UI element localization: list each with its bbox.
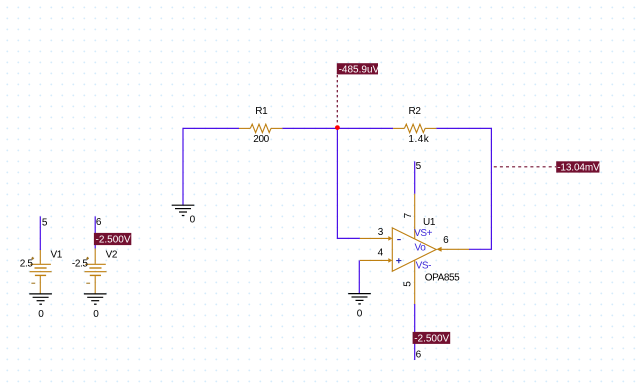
svg-text:3: 3 [378, 227, 384, 238]
svg-text:V1: V1 [51, 250, 63, 261]
svg-text:-485.9uV: -485.9uV [339, 64, 380, 75]
svg-text:VS-: VS- [416, 260, 432, 271]
svg-text:-13.04mV: -13.04mV [557, 163, 600, 174]
svg-text:5: 5 [416, 161, 422, 172]
svg-text:0: 0 [38, 309, 44, 320]
svg-text:Vo: Vo [415, 242, 427, 253]
svg-text:U1: U1 [423, 217, 436, 228]
svg-text:OPA855: OPA855 [425, 272, 460, 283]
svg-text:0: 0 [357, 309, 363, 320]
svg-text:5: 5 [42, 218, 48, 229]
svg-text:6: 6 [96, 217, 102, 228]
svg-text:VS+: VS+ [414, 228, 433, 239]
svg-text:5: 5 [402, 281, 413, 287]
svg-text:6: 6 [443, 235, 449, 246]
svg-text:R2: R2 [409, 106, 422, 117]
svg-text:R1: R1 [255, 106, 268, 117]
svg-text:200: 200 [253, 134, 269, 145]
svg-text:2.5: 2.5 [20, 258, 34, 269]
svg-text:6: 6 [416, 349, 422, 360]
svg-text:-2.5: -2.5 [72, 258, 88, 269]
svg-text:-2.500V: -2.500V [414, 334, 449, 345]
svg-text:4: 4 [378, 248, 384, 259]
svg-text:V2: V2 [106, 250, 118, 261]
svg-text:-2.500V: -2.500V [96, 235, 131, 246]
svg-text:0: 0 [190, 214, 196, 225]
svg-text:0: 0 [93, 309, 99, 320]
svg-text:1.4k: 1.4k [408, 134, 429, 145]
svg-text:7: 7 [403, 212, 414, 218]
